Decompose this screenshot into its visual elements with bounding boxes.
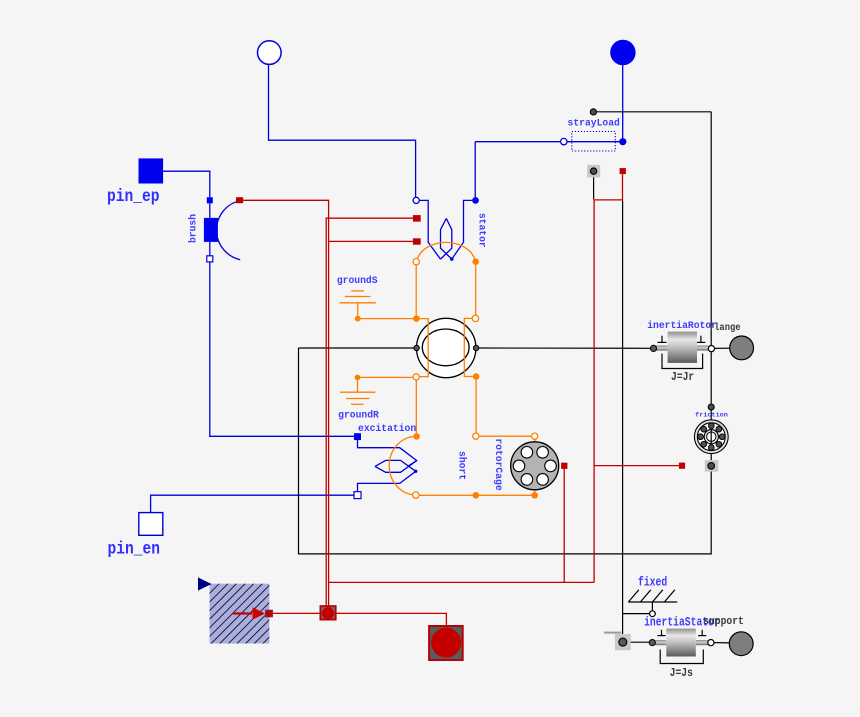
label groundR [338,410,379,421]
label brush [187,214,198,243]
label groundS [337,275,378,286]
value label J=Js [670,667,693,680]
wire pin_ep to brush [163,171,210,197]
wire stator port_sn down [415,265,417,316]
wire groundS to airGap node [358,318,414,320]
wire heat collector horizontal [329,581,594,583]
pin airGap port_sp [472,315,478,321]
inertia inertiaRotor [650,332,710,369]
label friction [695,412,728,420]
wire airGap to excitation arc [415,380,417,433]
fixed mount [628,590,677,617]
node airGap bottom-right junction [473,373,480,380]
wire rotorCage bottom stem [534,490,536,495]
svg-text:pin_en: pin_en [108,540,161,559]
wire short to rotorCage top [479,435,532,437]
heatPort stator winding lower square [413,238,421,244]
pin airGap port_rn [413,374,419,380]
pin stator magnetic port_sp [472,258,479,265]
pin excitation positive [354,433,361,440]
connector support [729,632,753,656]
svg-text:support: support [703,615,744,628]
node strayLoad output junction [619,138,626,145]
stator magnetic arc [417,242,475,260]
value label J=Jr [671,371,694,384]
label inertiaRotor [647,320,717,331]
label pin_ep [107,187,160,206]
pin stator plug_p [472,197,479,204]
label inertiaStator [644,615,720,630]
svg-text:excitation: excitation [358,423,416,434]
wire strayLoad heat down [594,174,622,582]
inertia inertiaStator [649,629,708,664]
heatPort stator winding upper square [413,215,421,222]
pin connector pin_en [139,513,163,536]
wire rotorCage top stem [534,439,536,442]
wire housing down [593,177,595,199]
connector flange [730,336,754,360]
svg-text:inertiaRotor: inertiaRotor [647,320,717,331]
wire airGap right jog [464,318,473,376]
connector plug_sn [258,41,282,65]
wire stator heat upper to bus B [326,218,413,606]
thermalAmbient heat flow arrow [233,607,273,620]
wire housing vertical to inertiaStator [622,201,624,634]
inertiaStator housing connector [604,632,631,651]
svg-text:pin_ep: pin_ep [107,187,160,206]
node junction rotorCage bottom [531,492,538,499]
wire branch to fixed [623,613,650,615]
rotorCage damper cage body [511,442,559,490]
label rotorCage [493,438,504,491]
svg-text:flange: flange [709,321,741,333]
pin excitation negative [354,492,361,499]
heatPort strayLoad square [620,168,626,174]
wire shaft left segment [299,347,415,349]
svg-text:brush: brush [187,214,198,243]
wire machine frame [299,112,712,554]
wire to support [714,642,730,644]
pin rotorCage top [532,433,538,439]
node strayLoad heatPort [590,109,596,115]
brush component [204,197,240,262]
wire to flange [715,347,731,349]
label fixed [638,575,667,590]
wire brush to excitation pin_ep [210,262,354,436]
pin stator plug_n [413,197,419,203]
excitation winding glyph [358,440,418,491]
pin inertiaStator flange_b [708,640,714,646]
label flange [709,321,741,333]
node airGap flange right [473,345,478,350]
wire brush heat to bus A [243,200,328,606]
airGap body [417,318,476,377]
wire groundR to airGap [360,376,413,378]
svg-text:rotorCage: rotorCage [493,438,504,491]
heatPort brush square [236,197,243,203]
node junction damper bottom-left [473,492,480,499]
excitation magnetic arc [389,436,416,495]
node excitation arc top [413,433,420,440]
wire strayLoad to stator plug_p [474,142,476,197]
stator winding glyph [419,200,472,260]
node thermal collector [321,606,336,619]
ground groundR [340,375,375,405]
wire plug_sn to stator pin [269,65,416,197]
pin short top [473,433,479,439]
pin inertiaRotor flange_b [708,346,714,352]
label support [703,615,744,628]
wire housing to inertiaStator [631,641,650,643]
svg-text:groundR: groundR [338,410,379,421]
wire rotorCage heat down [563,469,565,583]
wire bottom magnetic bus [419,494,535,496]
friction housing connector [705,460,718,472]
pin connector pin_ep [139,159,163,183]
wire thermal node to thermalPort [336,613,446,625]
connector plug_sp [611,40,635,64]
svg-text:J=Jr: J=Jr [671,371,694,384]
wire stator port_sp down [475,265,477,315]
label short [457,451,468,480]
node airGap top-left junction [413,315,420,322]
wire stator heat lower join [329,240,413,242]
thermalAmbient hatched box [198,577,269,643]
wire excitation to pin_en [151,495,354,512]
svg-text:strayLoad: strayLoad [568,117,621,128]
wire strayLoad heat line [597,111,712,113]
label excitation [358,423,416,434]
wire airGap left jog [416,319,428,377]
label strayLoad [568,117,621,128]
svg-text:fixed: fixed [638,575,667,590]
heatPort friction square [679,463,685,469]
pin strayLoad negative [561,138,567,144]
svg-text:short: short [457,451,468,480]
housing connector top gray square [587,165,600,177]
label pin_en [108,540,161,559]
ground groundS [340,291,376,322]
wire shaft to inertiaRotor [479,347,651,349]
label stator [477,213,488,248]
friction bearing [694,420,728,454]
pin stator magnetic port_sn [413,259,419,265]
node airGap flange left [414,345,419,350]
pin excitation magnetic bottom [413,492,419,498]
node friction top [708,404,714,410]
svg-text:groundS: groundS [337,275,378,286]
heatPort rotorCage square [561,463,567,469]
wire airGap to short vertical [475,380,477,433]
wire plug_sp to strayLoad node [622,65,624,141]
wire through strayLoad [475,141,620,143]
wire friction heat [594,465,679,467]
svg-text:stator: stator [477,213,488,248]
wire thermalAmbient to thermal node [273,612,320,614]
svg-text:J=Js: J=Js [670,667,693,680]
strayLoad component box [572,132,616,152]
connector thermalPort [429,626,463,660]
svg-text:friction: friction [695,412,728,420]
